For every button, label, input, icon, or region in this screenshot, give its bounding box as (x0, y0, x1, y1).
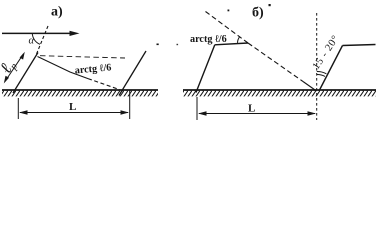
vertical dashed line (316, 13, 318, 120)
svg-text:arctg ℓ/6: arctg ℓ/6 (190, 34, 227, 45)
svg-text:α: α (29, 36, 35, 47)
dimension line L (left figure) (19, 110, 129, 114)
slope length dimension arrow (4, 52, 25, 84)
svg-text:L: L (69, 101, 76, 113)
dimension extension line left (17, 98, 19, 119)
speck left of b) (228, 10, 230, 12)
snow surface line (dashed tail) (88, 79, 124, 91)
dashed horizontal crest level line (40, 56, 125, 58)
dimension extension line (right figure, left) (196, 97, 198, 120)
dimension extension line right (129, 90, 131, 119)
dashed snow-deposit line lower part (248, 43, 303, 82)
ground line right (183, 89, 376, 91)
embankment windward slope (13, 53, 38, 94)
svg-text:а): а) (51, 5, 63, 20)
angle arc alpha (32, 33, 40, 44)
svg-text:L: L (248, 103, 255, 115)
right embankment top edge (343, 45, 376, 46)
snow surface line (solid part) (38, 57, 89, 79)
speck near b) (269, 4, 271, 6)
wind arrow (2, 31, 80, 36)
ink speck (157, 44, 159, 46)
dashed snow-deposit line upper part (206, 12, 249, 44)
angle arcs between vertical and slope (317, 74, 325, 76)
cutting top edge (215, 43, 248, 45)
right embankment steep slope (319, 46, 343, 92)
angle arc at brow (238, 36, 240, 43)
svg-text:б): б) (252, 6, 264, 21)
label 15-20 deg (rotated) (311, 33, 342, 71)
dashed flow line through crest (37, 26, 49, 54)
next embankment slope (right of gap) (119, 51, 146, 96)
dimension line L (right figure) (198, 111, 316, 115)
solid tail of snow-deposit line (303, 82, 317, 92)
ground line left (2, 89, 158, 91)
ground hatching left (2, 91, 158, 97)
label l_p (rotated) (0, 56, 20, 78)
cutting windward slope (196, 45, 215, 93)
ground hatching right (183, 91, 376, 97)
